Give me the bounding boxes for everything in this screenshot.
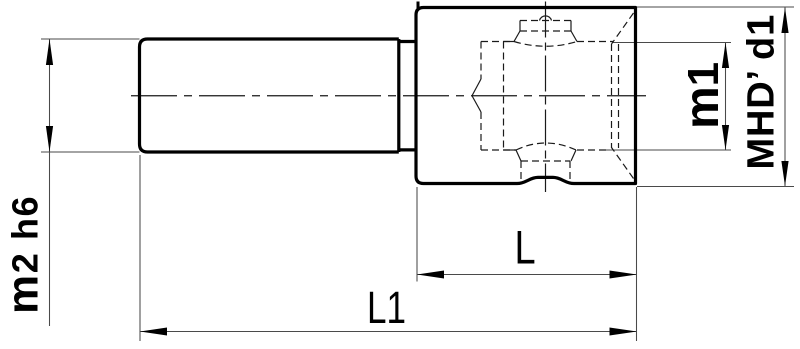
- svg-text:m1: m1: [676, 62, 729, 129]
- svg-text:m2 h6: m2 h6: [0, 195, 48, 314]
- svg-text:L: L: [515, 222, 536, 275]
- svg-text:L1: L1: [367, 282, 406, 333]
- svg-text:MHD’ d1: MHD’ d1: [741, 14, 783, 170]
